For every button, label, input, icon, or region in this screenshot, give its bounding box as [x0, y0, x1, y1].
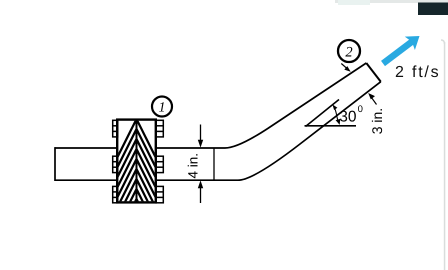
dimension 4 in. top arrow	[200, 125, 202, 146]
bolt left middle	[113, 156, 118, 172]
dimension 3 in. arrow	[371, 96, 377, 104]
svg-text:4 in.: 4 in.	[186, 153, 201, 179]
top edge light strip	[335, 0, 448, 3]
svg-text:1: 1	[159, 101, 166, 116]
svg-text:30: 30	[339, 108, 357, 125]
angle annotation inclined line	[306, 100, 340, 127]
flange body	[117, 120, 156, 203]
dark top-right bar	[418, 3, 448, 16]
velocity arrow 2 ft/s (blue)	[378, 29, 425, 70]
svg-text:0: 0	[358, 104, 363, 115]
leader arrow from node 2 to outlet	[341, 64, 348, 70]
wire: pipe section line at bend start	[213, 148, 215, 180]
wire: pipe upper edge (horizontal, bend, incline to outlet)	[55, 63, 367, 148]
svg-text:3 in.: 3 in.	[369, 108, 385, 134]
bolt right bottom	[156, 186, 164, 202]
node 1 circle	[152, 97, 172, 117]
dimension 4 in. bottom arrow	[200, 183, 202, 203]
angle annotation horizontal line	[305, 125, 357, 127]
bolt left bottom	[113, 186, 118, 202]
wire: outlet end cap	[366, 63, 381, 82]
bolt left top	[113, 120, 118, 137]
svg-text:2: 2	[345, 45, 352, 61]
node 2 circle	[338, 40, 360, 62]
flange right half hatching	[90, 106, 180, 206]
wire: pipe lower edge (horizontal, bend, incline to outlet)	[55, 82, 381, 181]
svg-text:2 ft/s: 2 ft/s	[395, 64, 440, 81]
flange left half hatching	[93, 106, 183, 206]
right panel border	[441, 40, 445, 44]
angle arc arrow upper	[334, 107, 337, 115]
bolt right middle	[156, 156, 164, 172]
bolt right top	[156, 120, 164, 137]
angle arc arrow lower	[337, 115, 339, 122]
flange center seam	[136, 120, 138, 203]
wire: pipe left end cap	[54, 147, 56, 181]
